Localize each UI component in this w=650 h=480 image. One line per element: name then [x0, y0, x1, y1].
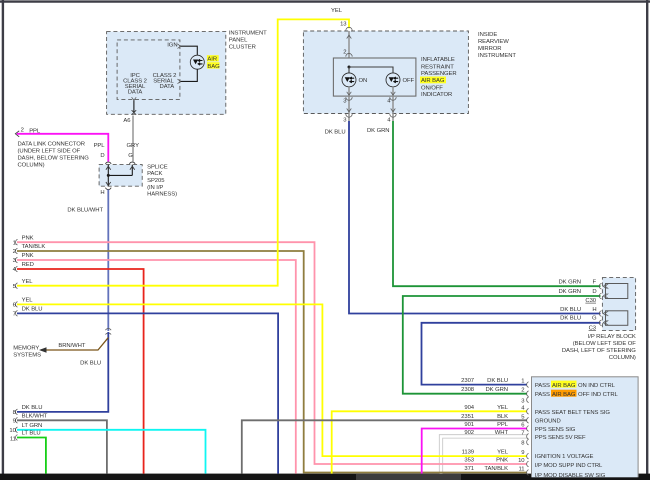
pin 6 arc	[527, 426, 529, 432]
arrow down OFF at case edge	[391, 109, 396, 112]
wire 902 WHT pin7 off-page (white wire)	[441, 436, 527, 473]
svg-text:PPS SENS 5V REF: PPS SENS 5V REF	[535, 435, 586, 441]
wire DK BLU relay G to connector pin1	[422, 323, 601, 385]
svg-text:1: 1	[521, 379, 524, 385]
svg-text:10: 10	[9, 428, 16, 434]
wire ON lamp down	[348, 87, 350, 121]
pin 9 arc	[527, 453, 529, 459]
arrow up below pin 2	[347, 60, 352, 63]
body control module connector box	[532, 377, 639, 480]
wire 2351 BLK pin5 off-page	[242, 420, 527, 473]
label INSIDE REARVIEW MIRROR INSTRUMENT	[478, 32, 516, 59]
svg-text:PASS SEAT BELT TENS SIG: PASS SEAT BELT TENS SIG	[535, 410, 610, 416]
svg-text:SPLICE: SPLICE	[147, 164, 168, 170]
wire GRY A6 to splice pack	[132, 116, 134, 162]
svg-text:DATA LINK CONNECTOR: DATA LINK CONNECTOR	[18, 141, 85, 147]
IPC inner module box	[117, 40, 180, 100]
wire PPL from DLC	[17, 134, 109, 162]
wire 904 YEL pin4 off-page	[332, 411, 527, 473]
svg-text:7: 7	[13, 311, 16, 317]
wire PNK pin1 to I/P MOD SUPP	[17, 242, 527, 464]
wire into mirror	[348, 31, 350, 67]
wire DK BLU/WHT splice to connector	[107, 190, 109, 331]
pin 11 arc	[16, 435, 18, 441]
pin 1 arc	[527, 382, 529, 388]
svg-text:COLUMN): COLUMN)	[609, 355, 636, 361]
svg-text:SP205: SP205	[147, 178, 165, 184]
svg-text:DK BLU: DK BLU	[325, 130, 346, 136]
svg-text:G: G	[592, 316, 597, 322]
svg-text:PNK: PNK	[22, 253, 34, 259]
svg-text:DK GRN: DK GRN	[559, 280, 582, 286]
pin 10 arc	[527, 461, 529, 467]
pin 5 arc	[16, 283, 18, 289]
svg-text:AIR BAG: AIR BAG	[421, 78, 445, 84]
svg-text:GRY: GRY	[127, 143, 140, 149]
wire lamp to CLASS 2 SERIAL DATA	[180, 69, 197, 81]
arrow down ON at case edge	[347, 109, 352, 112]
exit arrow H	[106, 182, 111, 186]
pin 11 arc	[527, 470, 529, 476]
svg-text:7: 7	[521, 430, 524, 436]
label MEMORY SYSTEMS	[13, 345, 41, 358]
svg-text:REARVIEW: REARVIEW	[478, 39, 509, 45]
svg-text:DK GRN: DK GRN	[559, 289, 582, 295]
svg-text:YEL: YEL	[22, 279, 34, 285]
wire BLK/WHT pin9 off-page bottom	[17, 420, 107, 473]
svg-text:10: 10	[518, 458, 525, 464]
wire LT GRN pin10 off-page bottom	[17, 430, 206, 474]
relay pin G terminal	[599, 320, 608, 326]
svg-text:G: G	[128, 153, 133, 159]
pin chevron CLASS2	[178, 79, 181, 84]
wire DK BLU mirror to relay H	[349, 121, 601, 314]
wire junction to ON lamp	[348, 67, 350, 73]
svg-text:9: 9	[13, 418, 16, 424]
svg-text:PNK: PNK	[22, 235, 34, 241]
svg-text:RED: RED	[22, 262, 34, 268]
svg-text:DK BLU: DK BLU	[487, 378, 508, 384]
wire TAN/BLK pin2 to I/P MOD DISABLE	[17, 251, 527, 473]
svg-text:INFLATABLE: INFLATABLE	[421, 57, 455, 63]
svg-text:DK GRN: DK GRN	[486, 387, 509, 393]
wire PNK pin3 off-page bottom	[17, 260, 296, 474]
arrow down OFF at module edge	[391, 92, 396, 95]
svg-text:H: H	[100, 190, 104, 196]
svg-text:OFF IND CTRL: OFF IND CTRL	[578, 392, 619, 398]
svg-text:BRN/WHT: BRN/WHT	[58, 343, 85, 349]
svg-text:2308: 2308	[461, 387, 475, 393]
svg-text:YEL: YEL	[497, 450, 509, 456]
svg-text:2: 2	[21, 128, 24, 134]
pin 2 arc	[16, 248, 18, 254]
svg-text:(UNDER LEFT SIDE OF: (UNDER LEFT SIDE OF	[18, 148, 81, 154]
svg-text:GROUND: GROUND	[535, 419, 561, 425]
svg-text:TAN/BLK: TAN/BLK	[22, 244, 46, 250]
label I/P RELAY BLOCK location	[562, 334, 636, 361]
pin 8 arc	[16, 409, 18, 415]
label SPLICE PACK SP205	[147, 164, 177, 197]
wire branch to OFF lamp	[349, 67, 393, 73]
svg-text:PASSENGER: PASSENGER	[421, 71, 457, 77]
svg-text:DK GRN: DK GRN	[367, 128, 390, 134]
svg-text:A6: A6	[123, 118, 131, 124]
arc module pin 3	[346, 97, 352, 100]
label DATA LINK CONNECTOR	[18, 141, 90, 168]
svg-text:9: 9	[521, 450, 524, 456]
bottom black bar	[0, 474, 650, 480]
pin 2 arc	[527, 391, 529, 397]
svg-text:PPL: PPL	[497, 422, 509, 428]
inline connector arcs on DK BLU wire	[106, 329, 112, 335]
wire YEL pin6 to IGNITION 1 VOLTAGE	[17, 304, 527, 456]
pin chevron IPC data	[132, 97, 137, 100]
svg-text:D: D	[592, 289, 596, 295]
label CLASS 2 SERIAL DATA (right block)	[153, 73, 177, 90]
arc case pin 3	[346, 114, 352, 117]
svg-text:I/P RELAY BLOCK: I/P RELAY BLOCK	[588, 334, 636, 340]
connector signal labels	[535, 381, 619, 479]
svg-text:DASH, LEFT OF STEERING: DASH, LEFT OF STEERING	[562, 348, 636, 354]
wire IPC data out of inner box	[133, 99, 135, 112]
pin 3 arc	[527, 397, 529, 403]
jumper bar F-D	[606, 284, 628, 299]
svg-text:H: H	[592, 307, 596, 313]
svg-text:ON/OFF: ON/OFF	[421, 85, 443, 91]
wire 901 PPL pin6 off-page	[422, 429, 527, 474]
svg-text:C3: C3	[589, 325, 597, 331]
svg-text:IGNITION 1 VOLTAGE: IGNITION 1 VOLTAGE	[535, 454, 594, 460]
pin 9 arc	[16, 418, 18, 424]
label INFLATABLE RESTRAINT PASSENGER AIR BAG ON/OFF INDICATOR	[420, 57, 457, 98]
svg-text:YEL: YEL	[331, 8, 343, 14]
pin 8 arc	[527, 439, 529, 445]
svg-text:11: 11	[519, 467, 525, 473]
relay pin D terminal	[599, 293, 608, 299]
instrument panel cluster outer box	[107, 32, 226, 115]
label IPC CLASS 2 SERIAL DATA	[123, 73, 147, 95]
connector arc internal pin 2	[346, 53, 352, 56]
air bag indicator lamp (LED) in cluster	[190, 55, 204, 69]
svg-text:RESTRAINT: RESTRAINT	[421, 64, 454, 70]
svg-text:(IN I/P: (IN I/P	[147, 185, 163, 191]
svg-text:PANEL: PANEL	[229, 38, 248, 44]
svg-text:BAG: BAG	[207, 64, 220, 70]
svg-text:COLUMN): COLUMN)	[18, 162, 45, 168]
connector arc at splice entry D	[106, 162, 112, 164]
svg-text:DK BLU: DK BLU	[22, 405, 43, 411]
svg-text:902: 902	[464, 430, 474, 436]
DLC pin 2 arrow	[15, 131, 19, 137]
splice pack SP205 box	[99, 165, 142, 187]
svg-text:904: 904	[464, 405, 474, 411]
wire IGN to air bag lamp	[180, 46, 197, 55]
label AIR BAG (yellow highlight)	[207, 55, 220, 70]
connector arc at splice exit H	[106, 188, 112, 190]
svg-text:AIR: AIR	[207, 57, 217, 63]
bottom page edge bar over connector	[531, 477, 650, 480]
wire LT BLU pin11 off-page bottom	[17, 438, 46, 474]
pin 4 arc	[16, 266, 18, 272]
connector arc at mirror case top	[346, 27, 352, 30]
svg-text:BLK: BLK	[497, 414, 508, 420]
svg-text:11: 11	[10, 437, 16, 443]
svg-text:LT BLU: LT BLU	[22, 431, 41, 437]
svg-text:2351: 2351	[461, 414, 474, 420]
svg-text:CLUSTER: CLUSTER	[229, 44, 256, 50]
arrow to memory systems	[39, 347, 47, 353]
junction node	[348, 66, 351, 69]
relay pin F terminal	[599, 283, 608, 289]
svg-text:D: D	[100, 153, 104, 159]
wire DK GRN relay D to connector pin2	[403, 296, 601, 394]
svg-text:ON: ON	[359, 78, 368, 84]
svg-text:INSIDE: INSIDE	[478, 32, 497, 38]
svg-text:PPL: PPL	[94, 143, 106, 149]
svg-text:DK BLU: DK BLU	[560, 316, 581, 322]
wire RED pin4 off-page bottom	[17, 269, 144, 474]
pin 5 arc	[527, 418, 529, 424]
wire DK BLU pin7 off-page bottom	[17, 313, 278, 473]
svg-text:1: 1	[13, 240, 16, 246]
svg-text:901: 901	[464, 422, 474, 428]
svg-text:353: 353	[464, 458, 474, 464]
relay pin H terminal	[599, 311, 608, 317]
svg-text:LT GRN: LT GRN	[22, 423, 43, 429]
svg-text:DATA: DATA	[128, 89, 143, 95]
arc case pin 4	[390, 114, 396, 117]
svg-text:DK BLU: DK BLU	[22, 307, 43, 313]
entry arrow G	[130, 166, 135, 170]
svg-text:INSTRUMENT: INSTRUMENT	[478, 53, 516, 59]
svg-text:2307: 2307	[461, 378, 474, 384]
svg-text:WHT: WHT	[495, 430, 509, 436]
svg-text:HARNESS): HARNESS)	[147, 192, 177, 198]
svg-text:2: 2	[13, 249, 16, 255]
mirror inner module box	[333, 58, 416, 96]
pin 3 arc	[16, 257, 18, 263]
svg-text:PNK: PNK	[496, 458, 508, 464]
svg-text:YEL: YEL	[22, 298, 34, 304]
svg-text:TAN/BLK: TAN/BLK	[484, 466, 508, 472]
jumper bar H-G	[606, 311, 628, 326]
connector crossing X at A6	[132, 110, 137, 115]
pin 4 arc	[527, 409, 529, 415]
wire DK GRN mirror to relay F	[393, 121, 601, 286]
junction dot in splice pack	[107, 174, 110, 177]
svg-text:DATA: DATA	[160, 84, 175, 90]
arc module pin 4	[390, 97, 396, 100]
arrow down ON at module edge	[347, 92, 352, 95]
svg-text:(BELOW LEFT SIDE OF: (BELOW LEFT SIDE OF	[573, 341, 637, 347]
svg-text:PACK: PACK	[147, 171, 162, 177]
svg-text:I/P MOD SUPP IND CTRL: I/P MOD SUPP IND CTRL	[535, 463, 603, 469]
svg-text:OFF: OFF	[403, 78, 415, 84]
svg-text:YEL: YEL	[497, 405, 509, 411]
svg-text:13: 13	[340, 21, 347, 27]
pin chevron IGN	[178, 44, 181, 49]
OFF indicator lamp	[386, 73, 400, 87]
svg-text:ON IND CTRL: ON IND CTRL	[578, 383, 616, 389]
arrow up at case entry	[347, 35, 352, 38]
wire BRN/WHT tap	[41, 338, 108, 350]
svg-text:DK BLU: DK BLU	[560, 307, 581, 313]
svg-text:MIRROR: MIRROR	[478, 46, 501, 52]
splice pack internal bus	[108, 165, 132, 187]
svg-text:PASS: PASS	[535, 383, 550, 389]
pin 1 arc	[16, 239, 18, 245]
ON indicator lamp	[342, 73, 356, 87]
relay block box	[602, 278, 635, 331]
wire DK BLU below inline connector	[17, 332, 108, 412]
entry arrow D	[106, 166, 111, 170]
connector arc at splice entry G	[130, 162, 136, 164]
svg-text:INSTRUMENT: INSTRUMENT	[229, 31, 267, 37]
svg-text:1139: 1139	[462, 450, 474, 456]
wire OFF lamp down	[392, 87, 394, 121]
svg-text:MEMORY: MEMORY	[13, 345, 39, 351]
pin 10 arc	[16, 427, 18, 433]
svg-text:2: 2	[521, 388, 524, 394]
svg-text:DK BLU: DK BLU	[80, 360, 101, 366]
svg-text:DASH, BELOW STEERING: DASH, BELOW STEERING	[18, 155, 90, 161]
pin 7 arc	[16, 311, 18, 317]
svg-text:371: 371	[464, 466, 474, 472]
svg-text:AIR BAG: AIR BAG	[552, 383, 576, 389]
svg-text:C30: C30	[585, 298, 596, 304]
pin 6 arc	[16, 302, 18, 308]
svg-text:PASS: PASS	[535, 392, 550, 398]
svg-text:DK BLU/WHT: DK BLU/WHT	[67, 207, 103, 213]
svg-text:SYSTEMS: SYSTEMS	[13, 352, 41, 358]
label INSTRUMENT PANEL CLUSTER	[229, 31, 267, 51]
wire YEL pin5 up to mirror feed	[17, 19, 349, 285]
pin 7 arc	[527, 434, 529, 440]
svg-text:BLK/WHT: BLK/WHT	[22, 414, 48, 420]
mirror outer box	[303, 31, 468, 114]
svg-text:F: F	[592, 280, 596, 286]
svg-text:INDICATOR: INDICATOR	[421, 92, 452, 98]
svg-text:AIR BAG: AIR BAG	[552, 392, 576, 398]
svg-text:IGN: IGN	[167, 43, 177, 49]
svg-text:PPS SENS SIG: PPS SENS SIG	[535, 427, 576, 433]
